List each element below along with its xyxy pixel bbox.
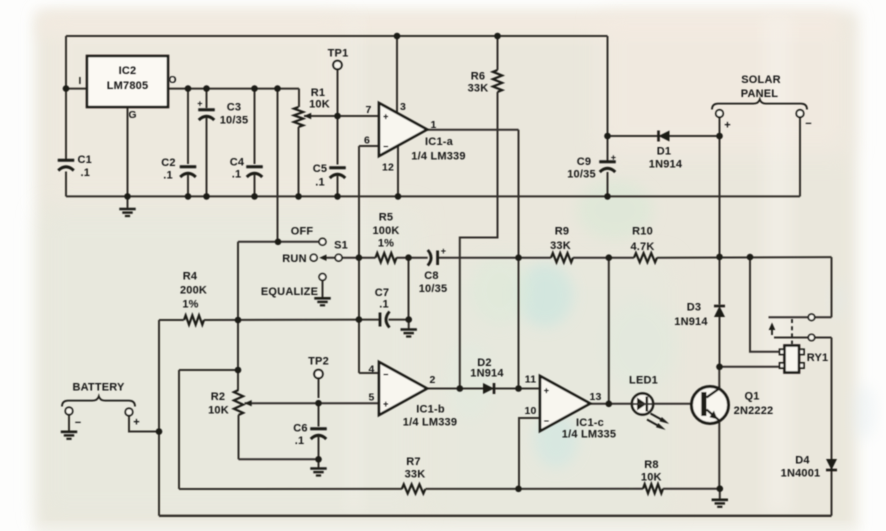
svg-text:+: +: [383, 399, 388, 409]
svg-text:RUN: RUN: [282, 253, 306, 265]
svg-text:OFF: OFF: [291, 226, 314, 238]
svg-text:−: −: [805, 118, 812, 130]
svg-text:10K: 10K: [641, 472, 662, 484]
svg-text:IC2: IC2: [119, 65, 137, 77]
svg-text:.1: .1: [163, 170, 173, 182]
svg-text:D1: D1: [657, 146, 671, 158]
svg-text:1/4 LM339: 1/4 LM339: [403, 417, 457, 429]
svg-text:7: 7: [365, 104, 371, 116]
svg-text:RY1: RY1: [807, 352, 829, 364]
svg-text:EQUALIZE: EQUALIZE: [261, 286, 318, 298]
svg-text:Q1: Q1: [744, 391, 759, 403]
svg-text:+: +: [544, 386, 549, 396]
svg-text:.1: .1: [295, 435, 305, 447]
svg-text:R5: R5: [379, 212, 393, 224]
svg-text:200K: 200K: [180, 285, 207, 297]
svg-text:IC1-b: IC1-b: [416, 404, 445, 416]
svg-text:1%: 1%: [182, 299, 198, 311]
svg-text:S1: S1: [334, 240, 348, 252]
svg-text:33K: 33K: [468, 83, 489, 95]
svg-text:10/35: 10/35: [220, 115, 249, 127]
svg-text:+: +: [441, 246, 446, 256]
svg-text:R10: R10: [632, 226, 653, 238]
svg-text:1: 1: [430, 119, 436, 131]
svg-text:IC1-a: IC1-a: [425, 136, 454, 148]
svg-text:I: I: [79, 76, 82, 87]
svg-text:C6: C6: [293, 423, 307, 435]
svg-text:C2: C2: [161, 157, 175, 169]
svg-text:13: 13: [589, 391, 601, 403]
svg-text:.1: .1: [379, 299, 389, 311]
svg-text:1N4001: 1N4001: [781, 468, 821, 480]
svg-text:BATTERY: BATTERY: [72, 382, 125, 394]
svg-text:33K: 33K: [550, 240, 571, 252]
svg-text:12: 12: [382, 162, 394, 174]
svg-text:PANEL: PANEL: [741, 88, 779, 100]
svg-text:+: +: [611, 153, 616, 163]
svg-text:100K: 100K: [372, 225, 399, 237]
svg-text:1N914: 1N914: [470, 368, 504, 380]
svg-text:R2: R2: [211, 391, 225, 403]
svg-text:G: G: [128, 109, 136, 121]
svg-text:TP2: TP2: [308, 356, 329, 368]
svg-text:1%: 1%: [378, 238, 394, 250]
svg-text:C1: C1: [78, 154, 92, 166]
svg-text:10/35: 10/35: [567, 169, 596, 181]
svg-text:D4: D4: [795, 455, 810, 467]
svg-text:2N2222: 2N2222: [734, 405, 774, 417]
svg-text:1N914: 1N914: [649, 159, 683, 171]
svg-text:C3: C3: [227, 102, 241, 114]
svg-text:.1: .1: [232, 169, 242, 181]
svg-text:R7: R7: [406, 456, 420, 468]
svg-text:R1: R1: [311, 87, 325, 99]
svg-text:R8: R8: [644, 459, 658, 471]
svg-text:10: 10: [524, 405, 536, 417]
svg-text:SOLAR: SOLAR: [741, 74, 781, 86]
svg-text:D3: D3: [687, 302, 701, 314]
svg-text:1N914: 1N914: [674, 316, 708, 328]
svg-text:C8: C8: [424, 270, 438, 282]
svg-text:.1: .1: [81, 167, 91, 179]
svg-text:4.7K: 4.7K: [630, 241, 654, 253]
svg-text:1/4 LM339: 1/4 LM339: [411, 151, 465, 163]
svg-text:3: 3: [400, 101, 406, 113]
svg-text:10K: 10K: [208, 405, 229, 417]
svg-text:−: −: [383, 370, 388, 380]
svg-text:.1: .1: [315, 177, 325, 189]
svg-text:+: +: [383, 112, 388, 122]
svg-text:2: 2: [429, 374, 435, 386]
svg-text:+: +: [724, 120, 731, 132]
svg-text:C5: C5: [313, 163, 327, 175]
svg-text:−: −: [383, 142, 388, 152]
svg-text:+: +: [197, 99, 202, 109]
svg-text:C4: C4: [230, 157, 245, 169]
svg-text:10K: 10K: [309, 99, 330, 111]
svg-text:−: −: [544, 416, 549, 426]
svg-text:6: 6: [364, 135, 370, 147]
svg-text:−: −: [75, 417, 82, 429]
svg-text:IC1-c: IC1-c: [576, 417, 604, 429]
svg-text:R6: R6: [471, 71, 485, 83]
svg-text:R4: R4: [183, 271, 198, 283]
svg-text:4: 4: [368, 364, 374, 376]
svg-text:5: 5: [368, 392, 374, 404]
svg-text:33K: 33K: [405, 469, 426, 481]
svg-text:+: +: [133, 417, 140, 429]
svg-text:LED1: LED1: [629, 375, 658, 387]
svg-text:TP1: TP1: [328, 48, 349, 60]
svg-text:11: 11: [525, 374, 537, 386]
svg-text:C7: C7: [375, 287, 389, 299]
svg-text:C9: C9: [577, 156, 591, 168]
svg-text:R9: R9: [555, 226, 569, 238]
svg-text:LM7805: LM7805: [107, 80, 149, 92]
svg-text:O: O: [168, 74, 176, 86]
svg-text:10/35: 10/35: [419, 283, 448, 295]
svg-text:1/4 LM335: 1/4 LM335: [562, 429, 616, 441]
